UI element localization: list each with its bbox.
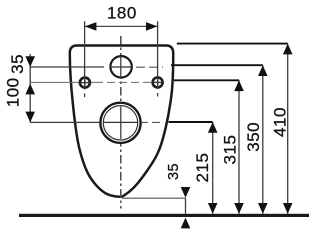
- left arrow up at holes axis: [25, 84, 35, 95]
- drain outer circle: [100, 103, 140, 143]
- vertical dim line 315: [238, 80, 240, 214]
- inlet center cross: [110, 66, 132, 68]
- vertical dim line 215: [212, 122, 214, 214]
- svg-text:180: 180: [107, 4, 137, 23]
- drain center cross: [104, 121, 138, 123]
- right extension line 410 (top edge): [177, 43, 288, 45]
- holes axis line: [30, 81, 95, 83]
- svg-text:350: 350: [244, 122, 263, 152]
- svg-text:35: 35: [8, 54, 27, 74]
- dim 180: dimension line: [85, 25, 158, 27]
- hole right cross: [152, 81, 164, 83]
- vertical dim line 410: [287, 44, 289, 214]
- dim 35 right: arrow down above line: [181, 187, 191, 198]
- right extension line 315: [174, 79, 239, 81]
- toilet pan outline: [70, 46, 173, 197]
- vertical centerline: [120, 36, 122, 209]
- right extension line 350: [171, 64, 263, 66]
- svg-text:35: 35: [166, 163, 182, 180]
- dim 180: left arrow: [85, 22, 97, 31]
- inlet circle: [110, 56, 131, 77]
- svg-text:100: 100: [4, 77, 23, 107]
- hole left cross: [79, 82, 91, 84]
- mounting hole left: [80, 78, 90, 88]
- svg-text:410: 410: [271, 107, 290, 137]
- inlet axis line: [30, 66, 104, 68]
- dim 180: right arrow: [146, 22, 157, 31]
- left dim line: [29, 54, 31, 122]
- mounting hole right: [153, 77, 163, 87]
- dim 180: extension lines: [84, 21, 86, 89]
- drain axis line: [30, 121, 100, 123]
- vertical dim line 350: [262, 65, 264, 214]
- dim 35 right: vertical line: [185, 198, 187, 214]
- left arrow down at inlet axis: [25, 56, 35, 67]
- bowl bottom extension line (35): [122, 197, 186, 199]
- drain inner circle: [103, 106, 137, 140]
- left arrow down at drain axis: [25, 112, 35, 123]
- svg-text:315: 315: [221, 135, 240, 165]
- svg-text:215: 215: [193, 153, 212, 183]
- wall baseline: [19, 214, 309, 217]
- dim 35 right: arrow up below baseline: [181, 218, 191, 229]
- right extension line 215: [169, 121, 213, 123]
